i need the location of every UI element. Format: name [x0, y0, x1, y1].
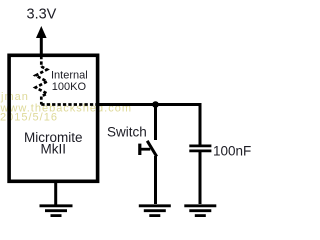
- svg-text:100nF: 100nF: [213, 143, 251, 158]
- svg-text:Internal: Internal: [51, 70, 88, 82]
- svg-text:jman: jman: [0, 91, 29, 103]
- svg-text:MkII: MkII: [41, 141, 67, 156]
- svg-text:Switch: Switch: [107, 124, 147, 139]
- svg-text:3.3V: 3.3V: [27, 7, 57, 23]
- svg-text:100KO: 100KO: [52, 81, 87, 93]
